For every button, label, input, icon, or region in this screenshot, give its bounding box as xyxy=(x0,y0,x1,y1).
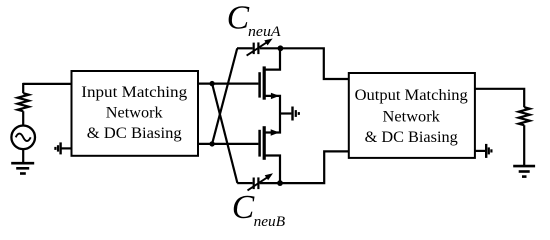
svg-text:Network: Network xyxy=(383,108,440,125)
svg-text:& DC Biasing: & DC Biasing xyxy=(365,129,458,146)
svg-text:neuA: neuA xyxy=(248,24,281,40)
svg-text:& DC Biasing: & DC Biasing xyxy=(87,125,182,142)
svg-text:Input Matching: Input Matching xyxy=(81,84,187,101)
svg-text:Network: Network xyxy=(106,105,163,122)
svg-text:neuB: neuB xyxy=(254,214,286,230)
svg-text:C: C xyxy=(232,189,255,226)
svg-text:C: C xyxy=(227,0,250,37)
svg-text:Output Matching: Output Matching xyxy=(355,87,468,104)
